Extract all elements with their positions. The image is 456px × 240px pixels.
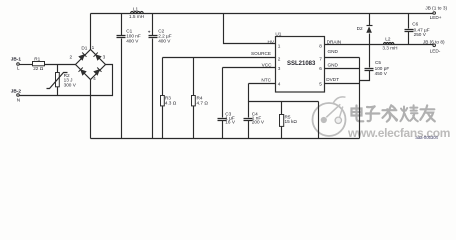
watermark chinese text you [420,105,435,121]
svg-text:U1: U1 [275,31,281,36]
wire GND pin6 [325,68,360,70]
wire bridge pin1 to top rail [90,14,92,50]
wire bridge pin4 to bottom rail [90,80,92,139]
svg-text:+: + [148,30,151,35]
svg-text:3: 3 [103,55,106,60]
resistor R1 [33,56,45,71]
svg-text:4: 4 [93,76,96,81]
wire bottom rail [91,138,360,140]
wire DVDT [325,83,360,85]
wire LED- run [370,44,434,46]
svg-text:4.7 Ω: 4.7 Ω [197,100,209,105]
svg-text:NTC: NTC [261,78,271,83]
watermark chinese text shao [400,105,417,121]
wire R1 to bridge [45,64,76,66]
inductor L1 [129,6,144,19]
bridge rectifier D1 [70,45,106,81]
wire VCC [223,67,276,69]
IC U1 SSL21083 [275,31,324,92]
diode D2 [357,14,373,45]
wire DRAIN [325,44,370,46]
capacitor C2 [148,14,172,139]
svg-text:5: 5 [319,81,322,86]
svg-text:JB (1 to 3): JB (1 to 3) [425,6,447,11]
capacitor C6 [405,14,430,45]
wire GND vertical [359,58,361,139]
terminal JB LED- [423,39,445,53]
svg-text:DRAIN: DRAIN [327,39,342,44]
svg-text:aaa-005304: aaa-005304 [416,135,439,140]
svg-text:450 V: 450 V [375,71,388,76]
terminal JB-2 [11,89,22,103]
svg-text:D1: D1 [81,45,87,50]
terminal JB-1 [11,56,22,70]
terminal JB LED+ [425,6,447,20]
resistor R3 [161,58,177,139]
svg-text:JB-1: JB-1 [11,56,22,61]
svg-text:22 Ω: 22 Ω [33,66,44,71]
svg-text:15 kΩ: 15 kΩ [285,119,298,124]
svg-text:GND: GND [328,49,339,54]
svg-text:DVDT: DVDT [326,77,339,82]
svg-text:D2: D2 [357,26,363,31]
svg-text:L2: L2 [385,37,391,42]
svg-text:R1: R1 [34,56,40,61]
svg-text:2: 2 [278,57,281,62]
svg-text:16 V: 16 V [225,120,236,125]
resistor R4 [192,58,209,139]
svg-text:L1: L1 [133,6,139,11]
wire JB-2 N to bridge pin3 [20,65,113,96]
svg-text:SOURCE: SOURCE [251,51,271,56]
svg-text:2: 2 [70,55,73,60]
svg-text:VCC: VCC [262,62,273,67]
wire NTC [249,83,276,85]
svg-text:HV: HV [267,39,274,44]
svg-text:6: 6 [319,66,322,71]
capacitor C4 [244,102,265,139]
svg-text:C6: C6 [412,21,418,26]
svg-text:3: 3 [278,66,281,71]
wire GND pin7 [325,57,360,59]
capacitor C1 [117,14,141,139]
watermark chinese text zi [366,106,379,121]
svg-text:250 V: 250 V [414,32,427,37]
svg-text:400 V: 400 V [126,38,139,43]
inductor L2 [382,37,397,51]
svg-text:C5: C5 [375,60,381,65]
resistor R5 [280,102,298,139]
wire HV riser [224,14,276,44]
wire SOURCE [163,57,276,59]
varistor R2 [47,73,77,89]
svg-text:LED-: LED- [430,49,441,54]
svg-text:200 V: 200 V [252,120,265,125]
watermark chinese text dian [352,106,364,122]
capacitor C5 [360,45,390,81]
svg-text:3.3 mH: 3.3 mH [382,46,397,51]
svg-text:400 V: 400 V [158,38,171,43]
wire JB-1 to R1 [20,64,33,66]
svg-text:GND: GND [328,63,339,68]
svg-text:L: L [17,66,20,71]
svg-text:7: 7 [319,57,322,62]
wire NTC branch down [249,84,319,102]
svg-text:4: 4 [278,81,281,86]
svg-text:1: 1 [92,45,95,50]
watermark logo circle [313,97,346,136]
svg-text:JB-2: JB-2 [11,89,22,94]
svg-text:8: 8 [319,44,322,49]
svg-text:SSL21083: SSL21083 [287,61,316,67]
wire top rail [91,13,434,15]
svg-text:300 V: 300 V [64,82,77,87]
svg-text:LED+: LED+ [430,15,442,20]
svg-text:1: 1 [278,44,281,49]
svg-text:N: N [17,98,20,103]
watermark chinese text fa [383,105,398,121]
wire NTC drop to rail [318,102,320,139]
wire varistor branch [57,65,59,96]
svg-text:4.3 Ω: 4.3 Ω [165,100,177,105]
capacitor C3 [218,68,236,139]
svg-text:1.5 mH: 1.5 mH [129,14,144,19]
watermark url text [347,126,451,141]
